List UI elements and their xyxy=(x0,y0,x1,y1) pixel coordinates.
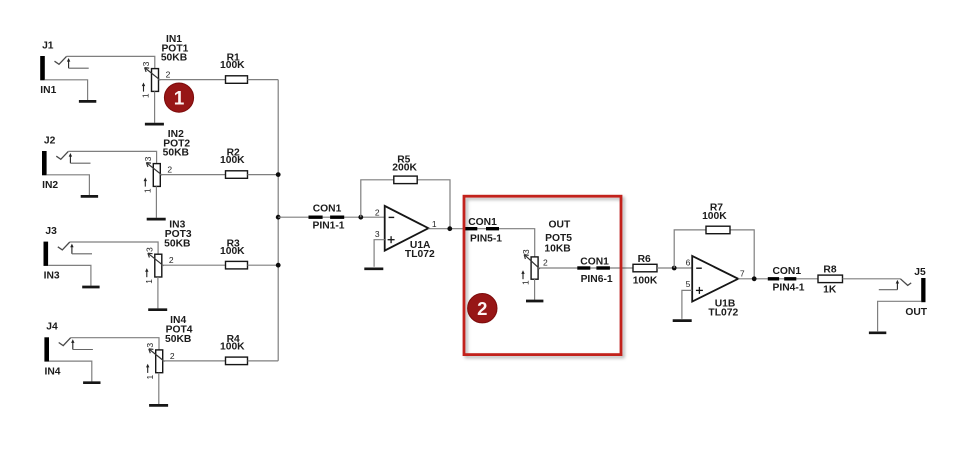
U1A pin numbers 2 / 3 / 1 xyxy=(375,207,437,239)
POT2 pin labels 3 / 2 / 1 xyxy=(142,156,172,193)
svg-text:50KB: 50KB xyxy=(163,148,189,159)
svg-text:TL072: TL072 xyxy=(405,249,435,260)
wire U1B feedback loop (left+top+right legs) xyxy=(674,230,754,279)
U1B pin numbers 6 / 5 / 7 xyxy=(686,258,745,290)
svg-text:CON1: CON1 xyxy=(772,266,801,277)
wire POT3 pin1 to ground xyxy=(157,277,159,308)
POT5 pin labels 3 / 2 / 1 xyxy=(520,249,548,285)
resistor R3 100K xyxy=(226,261,248,269)
wire U1A output to POT5 xyxy=(428,229,534,257)
wire POT5 pin1 to ground xyxy=(534,279,536,300)
svg-text:2: 2 xyxy=(170,351,175,361)
svg-text:J2: J2 xyxy=(44,135,56,146)
potentiometer POT2 50KB xyxy=(144,163,163,187)
svg-text:3: 3 xyxy=(375,229,380,239)
svg-text:TL072: TL072 xyxy=(708,307,738,318)
svg-text:1: 1 xyxy=(142,188,152,193)
ground (J5) xyxy=(869,331,886,334)
wire bus to U1A pin2 xyxy=(278,216,385,218)
svg-text:50KB: 50KB xyxy=(165,334,191,345)
wire R3 to summing bus xyxy=(248,264,279,266)
label R3 100K (value) xyxy=(220,238,245,256)
junction bus/U1A input tap xyxy=(276,215,281,220)
svg-text:1: 1 xyxy=(520,280,530,285)
svg-text:R8: R8 xyxy=(823,264,836,275)
svg-text:1: 1 xyxy=(145,374,155,379)
label CON1 PIN6-1 xyxy=(580,256,613,285)
label IN2 POT2 50KB (value) xyxy=(163,129,191,159)
wire POT4 wiper to R4 xyxy=(163,360,226,362)
svg-text:2: 2 xyxy=(166,70,171,80)
svg-text:PIN1-1: PIN1-1 xyxy=(312,221,344,232)
svg-text:1K: 1K xyxy=(823,284,837,295)
label R4 100K (value) xyxy=(220,334,245,353)
wire J3 tip to POT3 pin3 xyxy=(70,242,158,254)
junction U1A inverting input / feedback xyxy=(358,215,363,220)
resistor R4 100K xyxy=(226,357,248,365)
svg-text:5: 5 xyxy=(686,279,691,289)
ground (U1A non-inverting input) xyxy=(364,267,383,270)
ground (POT3) xyxy=(148,308,167,311)
svg-text:CON1: CON1 xyxy=(468,217,497,228)
wire R1 to summing bus xyxy=(248,79,279,81)
svg-text:2: 2 xyxy=(477,298,487,319)
wire POT2 pin1 to ground xyxy=(155,186,157,217)
ground (U1B non-inverting input) xyxy=(673,319,692,322)
ground (J2) xyxy=(81,195,98,198)
label R1 100K (value) xyxy=(220,53,245,71)
wire U1A feedback loop (left+top+right legs) xyxy=(361,180,450,229)
wire U1B pin5 to ground xyxy=(682,290,692,319)
svg-text:3: 3 xyxy=(521,249,531,254)
svg-text:3: 3 xyxy=(144,247,154,252)
resistor R1 100K xyxy=(226,76,248,84)
svg-text:2: 2 xyxy=(543,258,548,268)
svg-text:2: 2 xyxy=(375,207,380,217)
connector CON1 PIN1-1 (dashes) xyxy=(309,215,345,218)
ground (POT4) xyxy=(149,404,168,407)
svg-text:2: 2 xyxy=(167,165,172,175)
label IN1 POT1 50KB (value) xyxy=(161,34,189,64)
svg-text:1: 1 xyxy=(174,88,185,109)
resistor R6 100K xyxy=(633,264,657,272)
ground (J3) xyxy=(82,286,99,289)
junction R2/bus xyxy=(276,172,281,177)
svg-text:3: 3 xyxy=(141,61,151,66)
junction R3/bus xyxy=(276,263,281,268)
svg-text:2: 2 xyxy=(169,255,174,265)
resistor R5 200K (feedback) xyxy=(394,176,417,184)
wire R4 to summing bus xyxy=(248,360,279,362)
label R2 100K (value) xyxy=(220,148,245,167)
svg-text:OUT: OUT xyxy=(549,219,571,230)
ground (POT5) xyxy=(526,300,543,303)
wire summing bus (node N1) xyxy=(277,80,279,361)
svg-text:J3: J3 xyxy=(45,226,57,237)
svg-text:R6: R6 xyxy=(638,254,651,265)
svg-text:6: 6 xyxy=(686,258,691,268)
label CON1 PIN5-1 xyxy=(468,217,502,244)
wire J4 tip to POT4 pin3 xyxy=(71,338,159,350)
svg-text:OUT: OUT xyxy=(905,307,927,318)
svg-text:IN1: IN1 xyxy=(40,85,56,96)
wire POT4 pin1 to ground xyxy=(158,373,160,404)
callout badge 1 xyxy=(164,83,193,112)
label R5 200K (value) xyxy=(392,155,417,174)
wire J3 sleeve to ground xyxy=(48,265,91,285)
svg-text:1: 1 xyxy=(141,93,151,98)
svg-text:100K: 100K xyxy=(220,60,245,71)
ground (J1) xyxy=(79,100,96,103)
svg-text:POT5: POT5 xyxy=(545,233,572,244)
svg-text:100K: 100K xyxy=(220,342,245,353)
svg-text:7: 7 xyxy=(740,269,745,279)
svg-text:3: 3 xyxy=(143,156,153,161)
wire POT3 wiper to R3 xyxy=(162,264,226,266)
svg-text:PIN4-1: PIN4-1 xyxy=(772,282,804,293)
svg-text:1: 1 xyxy=(432,219,437,229)
svg-text:100K: 100K xyxy=(220,246,245,257)
label CON1 PIN1-1 xyxy=(312,204,344,232)
label U1A TL072 xyxy=(405,240,435,260)
wire J1 sleeve to ground xyxy=(45,80,88,100)
svg-text:10KB: 10KB xyxy=(544,244,570,255)
svg-text:100K: 100K xyxy=(702,211,727,222)
POT1 pin labels 3 / 2 / 1 xyxy=(141,61,171,98)
wire J2 tip to POT2 pin3 xyxy=(68,151,156,163)
connector CON1 PIN5-1 (dashes) xyxy=(464,227,499,230)
highlight box (red, around POT5 section) xyxy=(464,196,621,354)
wire U1A pin3 to ground xyxy=(374,240,385,267)
label CON1 PIN4-1 xyxy=(772,266,804,293)
connector CON1 PIN4-1 (dashes) xyxy=(768,277,797,280)
wire J2 sleeve to ground xyxy=(47,175,90,195)
wire J5 sleeve to ground xyxy=(878,301,922,331)
POT4 pin labels 3 / 2 / 1 xyxy=(145,343,175,380)
label R8 1K (value) xyxy=(823,264,837,295)
wire J1 tip to POT1 pin3 xyxy=(67,56,155,68)
label R6 100K (value) xyxy=(633,254,658,287)
op-amp U1B (TL072) xyxy=(692,256,738,302)
wire POT1 pin1 to ground xyxy=(154,91,156,122)
jack J4 (audio input) xyxy=(44,337,93,361)
svg-text:PIN6-1: PIN6-1 xyxy=(581,274,613,285)
potentiometer POT4 50KB xyxy=(146,349,165,373)
junction U1B inverting input / feedback xyxy=(672,266,677,271)
resistor R2 100K xyxy=(226,171,248,179)
ground (J4) xyxy=(83,381,100,384)
jack J3 (audio input) xyxy=(44,242,93,266)
ground (POT2) xyxy=(147,218,166,221)
svg-text:IN4: IN4 xyxy=(44,366,60,377)
label U1B TL072 xyxy=(708,298,738,318)
connector CON1 PIN6-1 (dashes) xyxy=(577,266,610,269)
svg-text:100K: 100K xyxy=(220,155,245,166)
jack J5 (audio output) xyxy=(879,278,926,302)
potentiometer POT3 50KB xyxy=(145,253,164,277)
label IN4 POT4 50KB (value) xyxy=(165,315,193,345)
svg-text:100K: 100K xyxy=(633,276,658,287)
svg-text:J1: J1 xyxy=(42,40,54,51)
potentiometer POT1 50KB xyxy=(142,68,161,92)
callout badge 2 xyxy=(468,294,497,323)
svg-text:50KB: 50KB xyxy=(164,238,190,249)
wire POT5 wiper to R6 xyxy=(538,267,633,269)
jack J2 (audio input) xyxy=(42,151,91,175)
svg-text:CON1: CON1 xyxy=(580,256,609,267)
wire R6 to U1B pin6 xyxy=(657,267,692,269)
svg-text:PIN5-1: PIN5-1 xyxy=(470,233,502,244)
label IN3 POT3 50KB (value) xyxy=(164,220,192,250)
junction U1A output / feedback xyxy=(447,226,452,231)
jack J1 (audio input) xyxy=(40,56,88,80)
wire U1B output to R8 xyxy=(738,278,818,280)
ground (POT1) xyxy=(145,123,164,126)
op-amp U1A (TL072) xyxy=(385,206,429,251)
wire R2 to summing bus xyxy=(248,174,279,176)
svg-text:1: 1 xyxy=(144,279,154,284)
svg-text:50KB: 50KB xyxy=(161,53,187,64)
svg-text:IN3: IN3 xyxy=(44,271,60,282)
wire R8 to J5 tip xyxy=(843,278,901,280)
label OUT POT5 10KB (value) xyxy=(544,219,572,254)
svg-text:J5: J5 xyxy=(914,267,926,278)
svg-text:IN2: IN2 xyxy=(42,180,58,191)
resistor R8 1K xyxy=(818,275,843,283)
svg-text:J4: J4 xyxy=(46,322,58,333)
svg-text:3: 3 xyxy=(145,343,155,348)
resistor R7 100K (feedback) xyxy=(706,226,730,234)
potentiometer POT5 10KB (output level) xyxy=(521,255,540,280)
label R7 100K (value) xyxy=(702,203,727,223)
wire POT1 wiper to R1 xyxy=(159,79,226,81)
wire J4 sleeve to ground xyxy=(49,361,92,381)
svg-text:200K: 200K xyxy=(392,162,417,173)
POT3 pin labels 3 / 2 / 1 xyxy=(144,247,174,284)
wire POT2 wiper to R2 xyxy=(160,174,225,176)
junction U1B output / feedback xyxy=(752,276,757,281)
svg-text:CON1: CON1 xyxy=(313,204,342,215)
